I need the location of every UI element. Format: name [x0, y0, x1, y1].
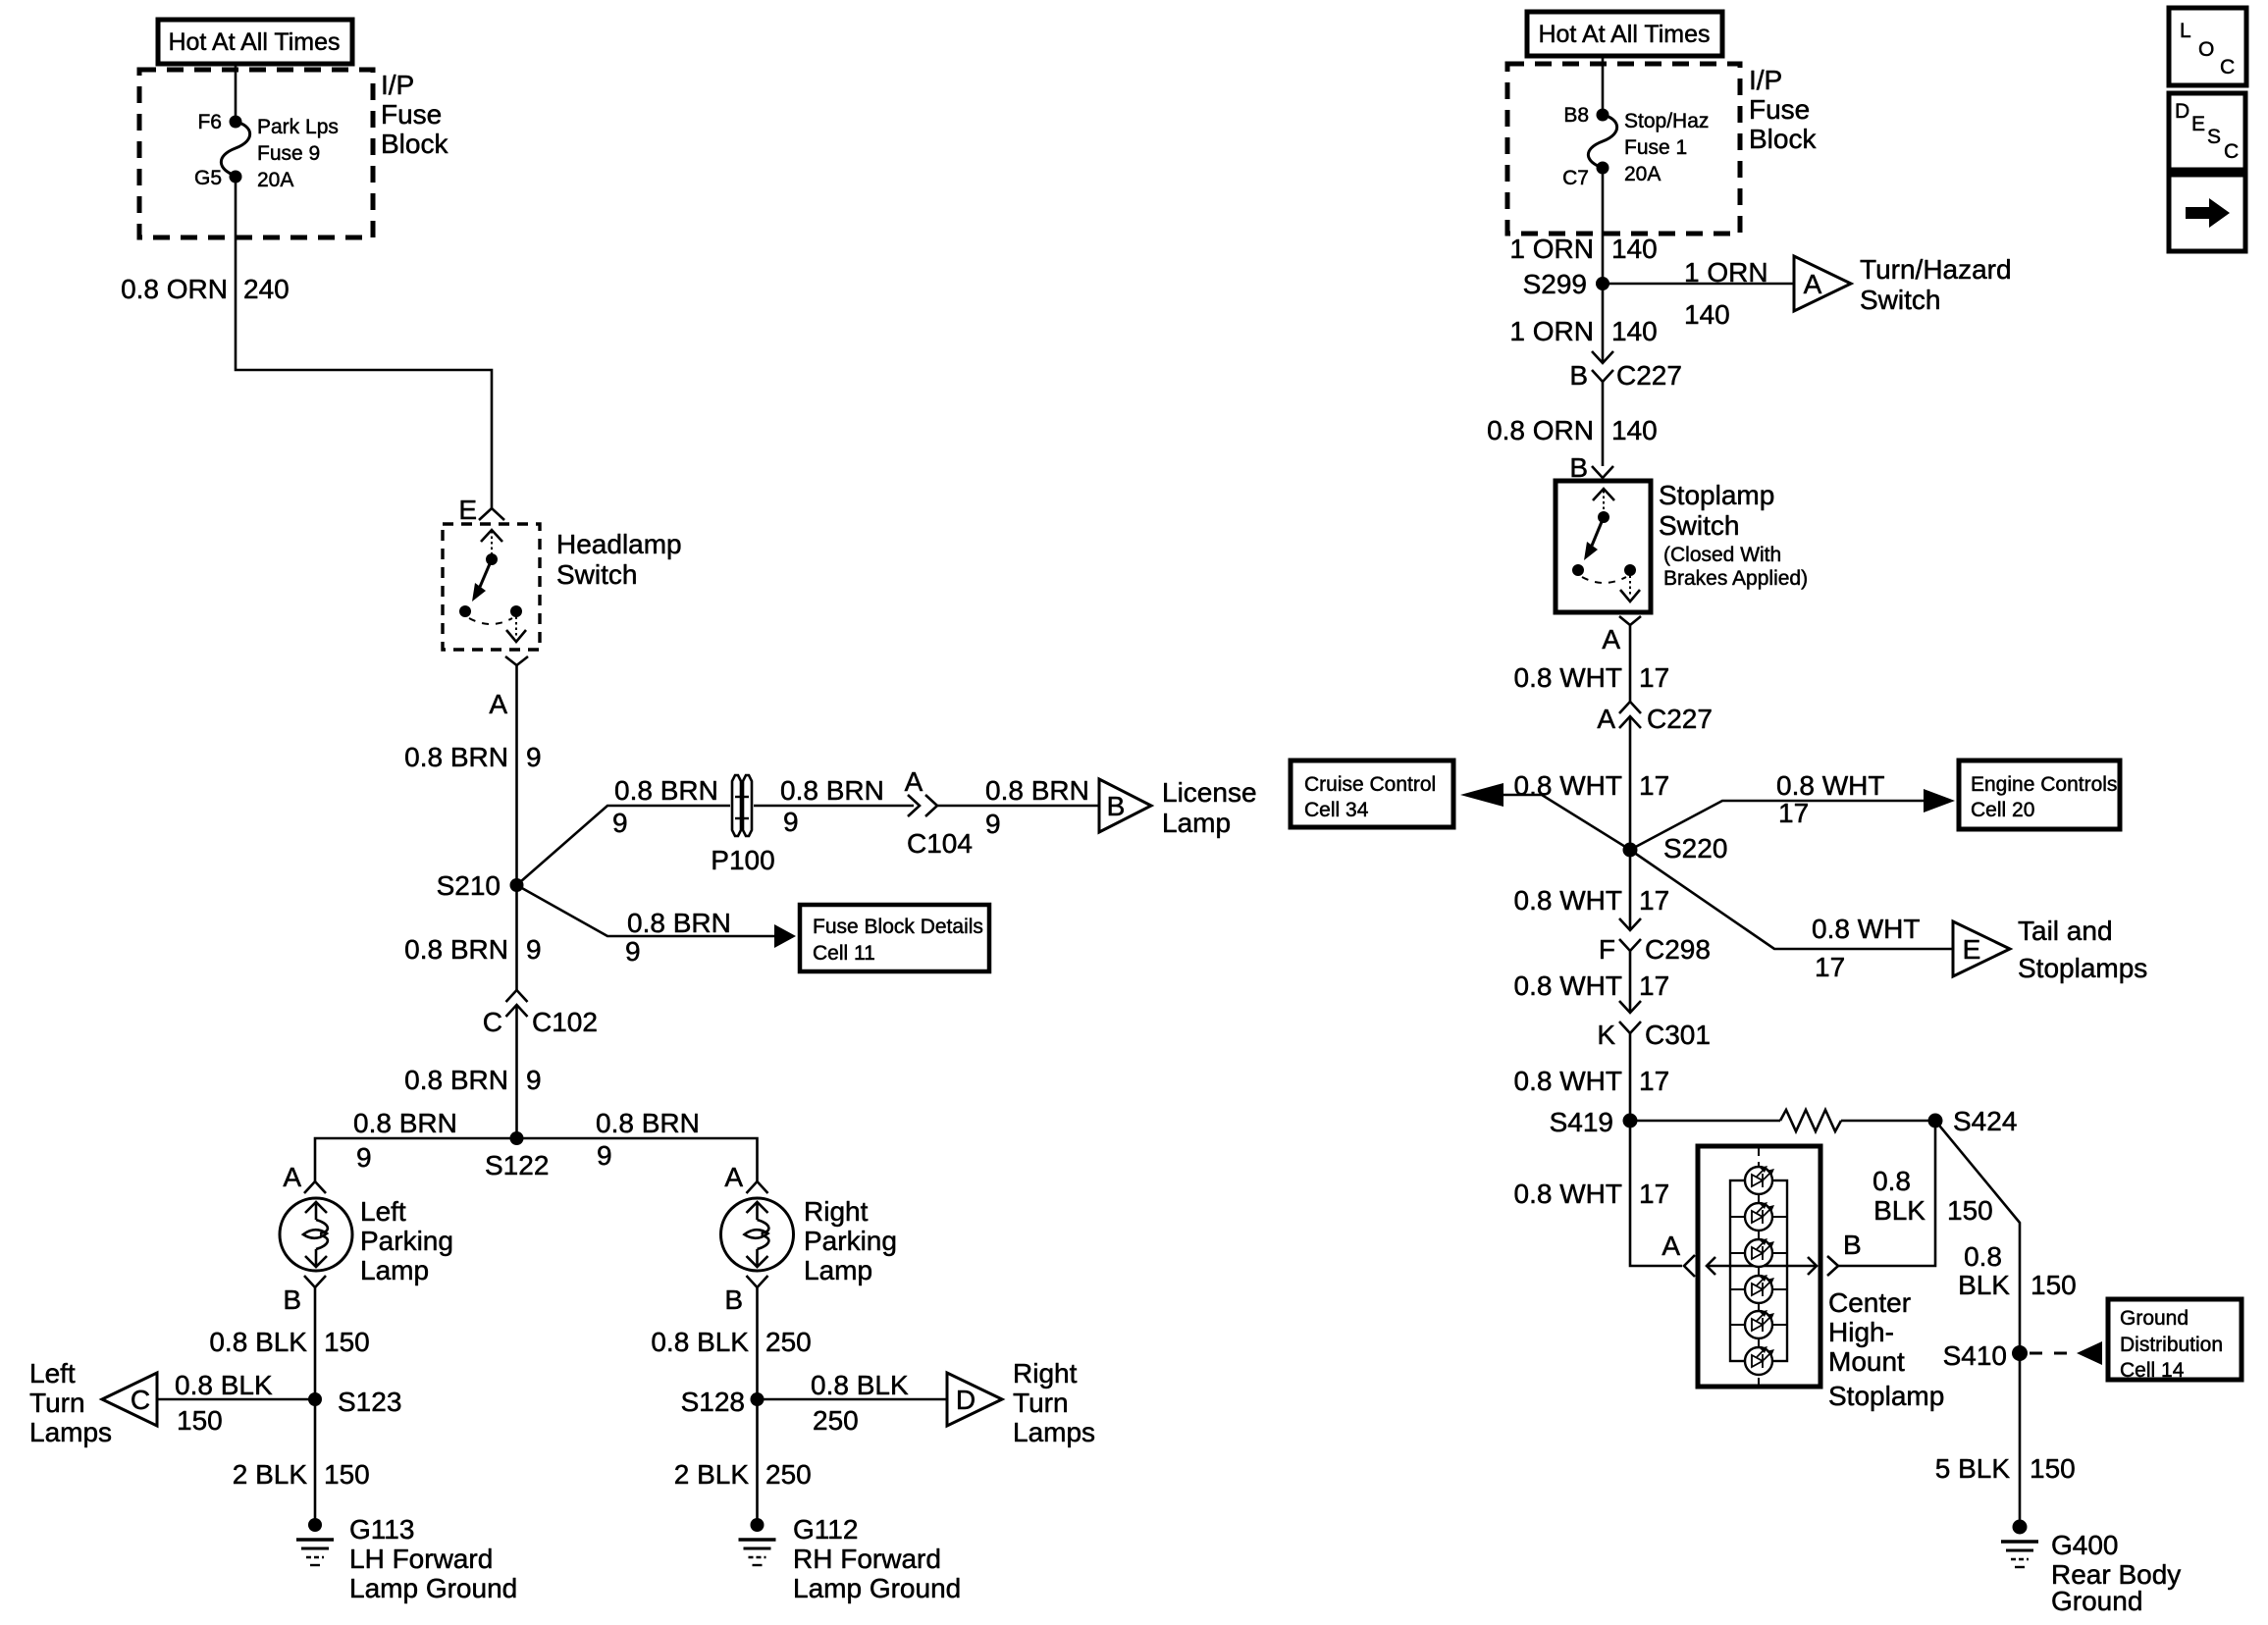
svg-text:Block: Block: [381, 129, 448, 159]
wire label: 1 ORN 140 (turn/hazard branch): [1684, 257, 1768, 330]
stoplamp switch: input arrow: [1593, 489, 1614, 514]
label: Headlamp Switch: [556, 529, 682, 590]
svg-text:K: K: [1597, 1020, 1615, 1050]
label: G113 LH Forward Lamp Ground: [349, 1514, 517, 1603]
svg-text:Cell 34: Cell 34: [1304, 799, 1369, 821]
wire: left parking lamp B down to S123: [314, 1287, 317, 1399]
svg-text:G400: G400: [2051, 1530, 2119, 1560]
svg-text:S: S: [2207, 126, 2221, 148]
ground G113 symbol: [296, 1518, 334, 1565]
svg-text:Left: Left: [29, 1358, 76, 1389]
svg-text:E: E: [2191, 113, 2205, 135]
CHMSL: LED 4: [1745, 1275, 1774, 1303]
svg-text:0.8 BRN: 0.8 BRN: [985, 775, 1089, 806]
svg-text:Stoplamps: Stoplamps: [2018, 953, 2147, 983]
terminal C7 dot: [1597, 162, 1609, 175]
wire: C104 to license lamp triangle: [937, 805, 1099, 808]
svg-text:5 BLK: 5 BLK: [1935, 1453, 2011, 1484]
wire label: 0.8 BLK 250 (to right turn lamps): [811, 1370, 909, 1436]
svg-text:9: 9: [985, 809, 1001, 839]
svg-text:0.8 BLK: 0.8 BLK: [209, 1327, 307, 1357]
CHMSL: output arrow (right): [1787, 1257, 1817, 1275]
wire: S424 down then left to CHMSL terminal B: [1838, 1121, 1935, 1266]
CHMSL: series link line through LEDs: [1758, 1180, 1760, 1361]
svg-text:B: B: [1843, 1230, 1862, 1260]
svg-text:C298: C298: [1645, 934, 1711, 965]
connector terminal B (left parking lamp): [304, 1276, 326, 1287]
wire label: 1 ORN 140 (below S299): [1509, 316, 1657, 346]
svg-text:Lamp Ground: Lamp Ground: [793, 1573, 961, 1603]
svg-text:17: 17: [1639, 885, 1669, 916]
off-page triangle C to Left Turn Lamps: [102, 1373, 157, 1426]
headlamp switch: contact dots: [459, 605, 522, 617]
svg-text:0.8 BLK: 0.8 BLK: [651, 1327, 749, 1357]
svg-text:A: A: [1597, 704, 1615, 734]
connector terminal A (left parking lamp): [304, 1181, 326, 1193]
svg-text:G112: G112: [793, 1514, 858, 1545]
legend icon box: DESC: [2169, 93, 2245, 170]
svg-text:F6: F6: [197, 111, 222, 133]
splice S123 dot: [308, 1392, 322, 1406]
wire: S299 right to triangle A: [1603, 283, 1794, 286]
wire label: 2 BLK 250: [674, 1459, 812, 1490]
svg-text:G5: G5: [194, 167, 222, 189]
wire label: 0.8 WHT 17 (between C298 and C301): [1514, 970, 1670, 1001]
svg-text:D: D: [956, 1385, 976, 1415]
svg-text:Center: Center: [1828, 1287, 1911, 1318]
wire: S123 down to ground G113: [314, 1399, 317, 1525]
wire label: 0.8 WHT 17 (tail/stoplamps branch): [1812, 914, 1920, 982]
power label box: Hot At All Times (right): [1527, 12, 1722, 56]
svg-text:0.8 ORN: 0.8 ORN: [1487, 415, 1594, 446]
headlamp switch: output arrow: [506, 611, 526, 642]
wire: C227-A down to S220: [1629, 716, 1632, 850]
I/P Fuse Block (left) dashed outline: [139, 70, 373, 237]
splice S419 dot: [1623, 1114, 1638, 1128]
wire: S210 up-right branch to license lamp: [517, 806, 731, 885]
wire label: 0.8 BRN 9 (above S210): [404, 742, 541, 772]
svg-text:Distribution: Distribution: [2120, 1334, 2223, 1356]
splice S299 dot: [1596, 277, 1609, 290]
center high-mount stoplamp outer box: [1698, 1146, 1820, 1387]
label: Right Turn Lamps: [1013, 1358, 1095, 1447]
svg-text:17: 17: [1639, 1066, 1669, 1096]
splice S128 dot: [751, 1392, 765, 1406]
svg-text:0.8 BRN: 0.8 BRN: [404, 1065, 508, 1095]
terminal G5 dot: [230, 171, 242, 183]
svg-text:0.8 WHT: 0.8 WHT: [1776, 770, 1884, 801]
connector terminal B (CHMSL): [1827, 1256, 1838, 1276]
wire label: 1 ORN 140 (above S299): [1509, 234, 1657, 264]
solid arrowhead into cruise control: [1460, 783, 1503, 807]
svg-text:Fuse 1: Fuse 1: [1624, 136, 1687, 159]
svg-text:E: E: [1963, 934, 1981, 965]
svg-text:140: 140: [1611, 316, 1658, 346]
svg-text:Lamp: Lamp: [1162, 808, 1231, 838]
svg-text:Lamp: Lamp: [360, 1255, 429, 1285]
svg-text:I/P: I/P: [381, 70, 414, 100]
svg-text:0.8 BRN: 0.8 BRN: [596, 1108, 700, 1138]
label: Turn/Hazard Switch: [1860, 254, 2012, 315]
svg-text:A: A: [905, 766, 923, 797]
wire: S410 down to ground G400: [2019, 1353, 2022, 1527]
svg-text:Block: Block: [1749, 124, 1817, 154]
svg-text:F: F: [1599, 934, 1615, 965]
wire label: 0.8 BLK 250 (right): [651, 1327, 811, 1357]
wire: P100 to connector C104: [754, 805, 914, 808]
label: I/P Fuse Block (right): [1749, 65, 1817, 154]
wire label: 0.8 WHT 17 (above S419): [1514, 1066, 1670, 1096]
svg-text:9: 9: [526, 934, 542, 965]
CHMSL: inner divider lines: [1730, 1217, 1787, 1325]
svg-text:A: A: [1804, 269, 1822, 299]
svg-text:Stop/Haz: Stop/Haz: [1624, 110, 1709, 132]
left parking lamp bulb: [280, 1198, 352, 1271]
wire: S210 down to C102: [515, 885, 518, 990]
svg-text:20A: 20A: [1624, 163, 1661, 185]
svg-text:S410: S410: [1943, 1340, 2007, 1371]
wire: C298 down to C301-K: [1629, 951, 1632, 1013]
CHMSL: LED 3: [1745, 1238, 1774, 1267]
svg-text:Hot At All Times: Hot At All Times: [168, 28, 340, 56]
wire: S419 down then right to CHMSL terminal A: [1630, 1121, 1682, 1266]
label: G112 RH Forward Lamp Ground: [793, 1514, 961, 1603]
fuse Park Lps Fuse 9 element (squiggle): [221, 122, 249, 176]
svg-text:C227: C227: [1647, 704, 1713, 734]
wire label: 0.8 WHT 17 (below S220): [1514, 885, 1670, 916]
svg-text:0.8 WHT: 0.8 WHT: [1514, 662, 1622, 693]
legend icon box: LOC: [2169, 8, 2246, 85]
svg-text:Engine Controls: Engine Controls: [1971, 773, 2117, 796]
svg-text:17: 17: [1778, 798, 1809, 828]
svg-text:RH Forward: RH Forward: [793, 1544, 941, 1574]
svg-text:C301: C301: [1645, 1020, 1711, 1050]
svg-text:Switch: Switch: [556, 559, 637, 590]
svg-text:0.8 BRN: 0.8 BRN: [614, 775, 718, 806]
svg-text:17: 17: [1639, 662, 1669, 693]
wire label: 0.8 BRN 9 (left of S122): [353, 1108, 457, 1173]
headlamp switch dashed box: [443, 524, 540, 650]
stoplamp switch: output arrow: [1620, 570, 1640, 602]
svg-text:Turn: Turn: [1013, 1388, 1069, 1418]
CHMSL: input arrow (left): [1707, 1257, 1730, 1275]
wire label: 0.8 BRN 9 (fuse block details branch): [625, 908, 731, 967]
reference box: Ground Distribution Cell 14: [2108, 1299, 2242, 1382]
svg-text:Switch: Switch: [1860, 285, 1940, 315]
svg-text:C104: C104: [907, 828, 973, 859]
svg-text:17: 17: [1639, 1179, 1669, 1209]
CHMSL: LED 1: [1745, 1166, 1774, 1194]
right parking lamp bulb: [721, 1198, 794, 1271]
fuse Stop/Haz Fuse 1 element (squiggle): [1588, 115, 1616, 168]
off-page triangle D to Right Turn Lamps: [947, 1373, 1002, 1426]
svg-text:Left: Left: [360, 1196, 406, 1227]
wire label: 0.8 BLK 150 (to left turn lamps): [175, 1370, 273, 1436]
CHMSL: inner LED housing box: [1730, 1180, 1787, 1361]
headlamp switch: blade with arrowhead: [472, 559, 492, 602]
svg-text:0.8 WHT: 0.8 WHT: [1514, 885, 1622, 916]
svg-text:Parking: Parking: [360, 1226, 453, 1256]
wire label: 0.8 BRN 9 (right of S122): [596, 1108, 700, 1171]
svg-text:9: 9: [612, 808, 628, 838]
svg-text:Lamp: Lamp: [804, 1255, 872, 1285]
svg-text:1 ORN: 1 ORN: [1509, 234, 1594, 264]
svg-text:17: 17: [1639, 970, 1669, 1001]
label: Stoplamp Switch (Closed With Brakes Applied): [1659, 480, 1808, 590]
reference box: Fuse Block Details Cell 11: [800, 905, 989, 971]
svg-text:A: A: [1602, 624, 1620, 655]
svg-text:9: 9: [597, 1140, 612, 1171]
connector terminal E (headlamp switch input): [479, 508, 504, 520]
svg-text:D: D: [2175, 100, 2189, 123]
wire label: 0.8 ORN 240: [121, 274, 290, 304]
wire label: 5 BLK 150: [1935, 1453, 2076, 1484]
wire: A-B pass-through inside LED box: [1730, 1265, 1787, 1268]
svg-text:Cell 14: Cell 14: [2120, 1359, 2185, 1382]
svg-text:17: 17: [1815, 952, 1845, 982]
wire: S419 right to resistor: [1630, 1120, 1780, 1123]
svg-text:0.8 BRN: 0.8 BRN: [627, 908, 731, 938]
wire: feed from Hot At All Times to fuse terminal F6: [235, 65, 237, 122]
wire: S220 branch to cruise control (up-left): [1503, 795, 1630, 850]
svg-text:Headlamp: Headlamp: [556, 529, 682, 559]
connector terminal B (right parking lamp): [747, 1276, 768, 1287]
svg-text:A: A: [724, 1162, 743, 1192]
svg-text:S220: S220: [1663, 833, 1727, 864]
wire: S123 left to triangle C: [157, 1398, 315, 1401]
solid arrowhead into fuse block details: [774, 924, 796, 948]
stoplamp switch: blade with arrowhead: [1584, 517, 1604, 560]
svg-text:C: C: [131, 1385, 150, 1415]
svg-text:Lamp Ground: Lamp Ground: [349, 1573, 517, 1603]
connector terminal A (stoplamp switch output): [1619, 616, 1641, 625]
svg-text:C: C: [2224, 140, 2239, 163]
terminal F6 dot: [230, 116, 242, 129]
svg-text:Brakes Applied): Brakes Applied): [1663, 567, 1808, 590]
solid arrowhead into ground distribution (pointing left): [2077, 1341, 2102, 1365]
wire label: 0.8 WHT 17 (above S220): [1514, 770, 1670, 801]
label: Right Parking Lamp: [804, 1196, 897, 1285]
wire: S299 down to connector C227-B: [1602, 284, 1605, 363]
CHMSL: LED 6: [1745, 1346, 1774, 1375]
svg-text:S424: S424: [1953, 1106, 2017, 1136]
connector terminal B (stoplamp switch input): [1592, 466, 1613, 478]
wire: S122 horizontal to both parking lamps: [315, 1138, 758, 1181]
svg-text:250: 250: [765, 1327, 812, 1357]
off-page triangle A to Turn/Hazard Switch: [1794, 256, 1851, 311]
ground G400 symbol: [2001, 1520, 2038, 1568]
wire: C102 down to S122: [515, 1005, 518, 1138]
wire: C227-B down to stoplamp switch: [1602, 382, 1605, 466]
ground G112 symbol: [739, 1518, 776, 1565]
svg-text:C102: C102: [532, 1007, 598, 1037]
in-line connector C298 pin F (down arrow into chevron): [1619, 918, 1641, 951]
svg-text:Mount: Mount: [1828, 1346, 1905, 1377]
svg-text:2 BLK: 2 BLK: [674, 1459, 750, 1490]
svg-text:250: 250: [813, 1405, 859, 1436]
svg-text:0.8 BRN: 0.8 BRN: [780, 775, 884, 806]
wire: S220 down to C298-F: [1629, 850, 1632, 930]
svg-text:BLK: BLK: [1958, 1270, 2010, 1300]
wire label: 0.8 ORN 140: [1487, 415, 1658, 446]
svg-text:I/P: I/P: [1749, 65, 1782, 95]
svg-text:9: 9: [625, 936, 641, 967]
svg-text:20A: 20A: [257, 169, 293, 191]
svg-text:Fuse: Fuse: [1749, 94, 1810, 125]
svg-text:BLK: BLK: [1873, 1195, 1925, 1226]
svg-text:2 BLK: 2 BLK: [233, 1459, 308, 1490]
svg-text:S419: S419: [1550, 1107, 1613, 1137]
svg-text:140: 140: [1611, 415, 1658, 446]
wire: fuse C7 down to S299: [1602, 168, 1605, 284]
svg-text:1 ORN: 1 ORN: [1684, 257, 1768, 288]
svg-text:B8: B8: [1563, 104, 1589, 127]
svg-text:150: 150: [2030, 1453, 2076, 1484]
svg-text:Switch: Switch: [1659, 510, 1739, 541]
splice S122 dot: [510, 1131, 524, 1145]
wire label: 0.8 BRN 9 (left of P100): [612, 775, 718, 838]
svg-text:150: 150: [324, 1459, 370, 1490]
wire label: 0.8 BRN 9 (above S122): [404, 1065, 541, 1095]
svg-text:(Closed With: (Closed With: [1663, 544, 1781, 566]
svg-text:250: 250: [765, 1459, 812, 1490]
svg-text:150: 150: [324, 1327, 370, 1357]
label: Left Turn Lamps: [29, 1358, 112, 1447]
svg-text:0.8 BRN: 0.8 BRN: [404, 934, 508, 965]
wire label: 0.8 WHT 17 (above C227-A): [1514, 662, 1670, 693]
svg-text:S210: S210: [437, 870, 501, 901]
label: I/P Fuse Block (left): [381, 70, 448, 159]
stoplamp switch: pivot dot: [1598, 511, 1609, 523]
svg-text:A: A: [489, 689, 507, 719]
svg-text:Lamps: Lamps: [1013, 1417, 1095, 1447]
svg-text:Park Lps: Park Lps: [257, 116, 339, 138]
wire: fuse G5 output down then right to headlamp switch: [236, 177, 492, 508]
reference box: Cruise Control Cell 34: [1291, 760, 1453, 827]
value label: Park Lps Fuse 9 20A: [257, 116, 339, 191]
headlamp switch: pivot dot: [486, 553, 498, 565]
svg-text:Parking: Parking: [804, 1226, 897, 1256]
svg-text:O: O: [2198, 38, 2214, 61]
svg-text:High-: High-: [1828, 1317, 1894, 1347]
in-line connector C104 (chevrons): [908, 795, 937, 816]
svg-text:9: 9: [356, 1142, 372, 1173]
svg-text:B: B: [724, 1284, 743, 1315]
svg-text:C227: C227: [1616, 360, 1682, 391]
in-line connector C102 (up chevrons): [506, 990, 528, 1017]
label: Left Parking Lamp: [360, 1196, 453, 1285]
label: License Lamp: [1162, 777, 1257, 838]
wire label: 0.8 BRN 9 (right of C104): [985, 775, 1089, 839]
svg-text:Stoplamp: Stoplamp: [1659, 480, 1774, 510]
svg-text:B: B: [1569, 452, 1588, 483]
wire: S220 branch to engine controls (up-right): [1630, 801, 1924, 850]
off-page triangle E to Tail and Stoplamps: [1953, 921, 2010, 976]
headlamp switch: input arrow: [481, 530, 502, 555]
wire label: 0.8 BRN 9 (left of C104): [780, 775, 884, 837]
svg-text:C: C: [483, 1007, 502, 1037]
svg-text:0.8 WHT: 0.8 WHT: [1514, 770, 1622, 801]
wire label: 0.8 WHT 17 (engine controls branch): [1776, 770, 1884, 828]
svg-text:150: 150: [177, 1405, 223, 1436]
in-line connector C227 pin A (up chevrons): [1619, 702, 1641, 728]
label: Center High-Mount Stoplamp: [1828, 1287, 1944, 1411]
svg-text:Stoplamp: Stoplamp: [1828, 1381, 1944, 1411]
svg-text:LH Forward: LH Forward: [349, 1544, 493, 1574]
svg-text:0.8 ORN: 0.8 ORN: [121, 274, 228, 304]
svg-text:1 ORN: 1 ORN: [1509, 316, 1594, 346]
wire label: 0.8 BRN 9 (above C102): [404, 934, 541, 965]
splice S410 dot: [2012, 1345, 2028, 1361]
power label box: Hot At All Times (left): [158, 20, 352, 64]
dashed wire: S410 to ground distribution: [2030, 1352, 2075, 1355]
label: Tail and Stoplamps: [2018, 916, 2147, 983]
wire: C301 down to S419: [1629, 1033, 1632, 1121]
svg-text:B: B: [1107, 791, 1126, 821]
svg-text:17: 17: [1639, 770, 1669, 801]
svg-text:Cruise Control: Cruise Control: [1304, 773, 1436, 796]
headlamp switch: dashed travel arc: [469, 618, 512, 624]
svg-text:Hot At All Times: Hot At All Times: [1538, 21, 1710, 48]
svg-text:Turn: Turn: [29, 1388, 85, 1418]
svg-text:0.8 WHT: 0.8 WHT: [1514, 1066, 1622, 1096]
svg-text:S122: S122: [485, 1150, 549, 1180]
svg-text:Ground: Ground: [2051, 1586, 2142, 1616]
svg-text:P100: P100: [711, 845, 774, 875]
resistor element between S419 and S424: [1780, 1110, 1841, 1131]
svg-text:S299: S299: [1523, 269, 1587, 299]
svg-text:9: 9: [526, 742, 542, 772]
svg-text:Tail and: Tail and: [2018, 916, 2113, 946]
connector terminal A (CHMSL): [1684, 1255, 1695, 1277]
wire: S128 down to ground G112: [756, 1399, 759, 1525]
svg-text:0.8 WHT: 0.8 WHT: [1514, 970, 1622, 1001]
terminal B8 dot: [1597, 109, 1609, 122]
svg-text:Right: Right: [804, 1196, 869, 1227]
svg-text:Fuse: Fuse: [381, 99, 442, 130]
in-line connector C227 pin B (down arrow into chevron): [1592, 351, 1613, 382]
wire label: 0.8 WHT 17 (above CHMSL A): [1514, 1179, 1670, 1209]
svg-text:140: 140: [1684, 299, 1730, 330]
svg-text:0.8 BLK: 0.8 BLK: [811, 1370, 909, 1400]
svg-text:C: C: [2220, 56, 2235, 79]
stoplamp switch box: [1556, 481, 1651, 612]
svg-text:140: 140: [1611, 234, 1658, 264]
svg-text:9: 9: [783, 807, 799, 837]
connector terminal A (right parking lamp): [747, 1181, 768, 1193]
svg-text:B: B: [283, 1284, 301, 1315]
svg-text:0.8 BLK: 0.8 BLK: [175, 1370, 273, 1400]
svg-text:Cell 11: Cell 11: [813, 942, 875, 965]
svg-text:G113: G113: [349, 1514, 414, 1545]
stoplamp switch: contact dots: [1572, 564, 1636, 576]
wire: S220 branch to tail and stoplamps (down-right): [1630, 850, 1953, 949]
wire label: 0.8 BLK 150 (above S410): [1958, 1241, 2077, 1300]
wire: resistor to S424: [1841, 1120, 1935, 1123]
value label: Stop/Haz Fuse 1 20A: [1624, 110, 1709, 185]
I/P Fuse Block (right) dashed outline: [1507, 64, 1740, 234]
svg-text:Right: Right: [1013, 1358, 1078, 1389]
svg-text:A: A: [283, 1162, 301, 1192]
splice S220 dot: [1623, 843, 1638, 858]
svg-text:0.8: 0.8: [1872, 1166, 1911, 1196]
wire label: 0.8 BLK 150 (left): [209, 1327, 369, 1357]
stoplamp switch: dashed travel arc: [1582, 577, 1626, 583]
svg-text:S128: S128: [681, 1387, 745, 1417]
svg-text:A: A: [1661, 1231, 1680, 1261]
CHMSL: LED 5: [1745, 1310, 1774, 1338]
svg-text:0.8 BRN: 0.8 BRN: [404, 742, 508, 772]
